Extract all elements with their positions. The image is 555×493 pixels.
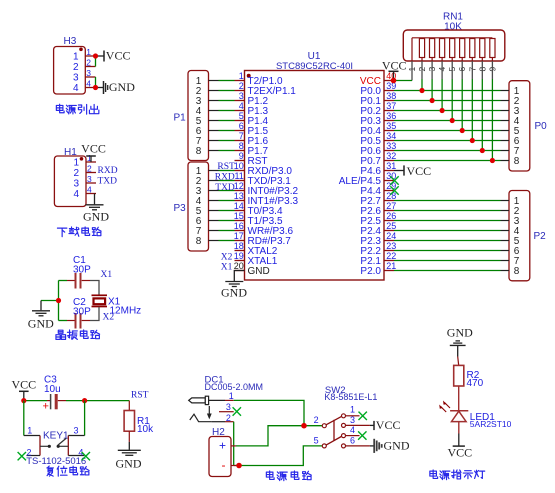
svg-text:12MHz: 12MHz: [110, 306, 142, 317]
wire P3 pin1 to U1: [219, 170, 235, 172]
svg-text:11: 11: [234, 171, 243, 181]
wire RN1 pin9 lead: [491, 61, 493, 79]
junction RN1 pin9: [490, 158, 495, 163]
wire P3 pin3 to U1: [219, 190, 235, 192]
ground GND (LED): [447, 326, 473, 346]
svg-text:P2: P2: [534, 231, 547, 242]
wire P1 pin4 to U1: [219, 110, 235, 112]
wire U1 pin33 to P0: [394, 150, 501, 152]
switch SW2 K8-5851E-L1: [314, 385, 378, 448]
svg-text:8: 8: [239, 141, 244, 151]
svg-text:2: 2: [73, 168, 79, 179]
svg-text:1: 1: [73, 158, 79, 169]
wire crystal bottom: [90, 307, 99, 321]
resistor R1 10k: [124, 401, 154, 442]
wire H1 pin4 to GND: [94, 194, 96, 205]
svg-text:2: 2: [239, 81, 244, 91]
wire SW2 pin2: [304, 425, 322, 427]
ground GND (U1): [221, 282, 247, 300]
wire bottom branch: [59, 320, 68, 322]
svg-text:37: 37: [386, 101, 396, 111]
wire U1 pin31 to VCC: [394, 170, 404, 172]
resistor R2 470: [454, 357, 484, 411]
wire P1 pin1 to U1: [219, 80, 235, 82]
svg-text:H3: H3: [64, 36, 77, 47]
capacitor C1 30P: [67, 255, 91, 289]
switch KEY1 TS-1102-5016: [24, 426, 86, 467]
resistor network RN1 10K: [403, 12, 505, 72]
svg-text:34: 34: [386, 131, 396, 141]
wire to GND: [96, 87, 104, 89]
svg-text:KEY1: KEY1: [43, 431, 69, 442]
wire RN1 pin5 lead: [451, 61, 453, 79]
svg-text:VCC: VCC: [382, 58, 407, 72]
svg-text:P3: P3: [174, 203, 187, 214]
wire VCC to RN1 pin1: [394, 80, 413, 82]
wire H3 pins 3-4: [95, 77, 97, 88]
wire U1 pin35 to P0: [394, 130, 501, 132]
svg-text:RST: RST: [217, 162, 235, 172]
svg-text:10k: 10k: [137, 424, 154, 435]
junction H2 minus node: [236, 463, 242, 469]
svg-text:GND: GND: [116, 456, 142, 470]
power VCC (reset): [11, 378, 36, 401]
svg-text:VCC: VCC: [448, 446, 473, 460]
svg-text:1: 1: [239, 71, 244, 81]
no-ERC U1 pin30: [390, 176, 398, 184]
connector P0: [501, 81, 548, 171]
connector P1: [174, 71, 219, 161]
wire DC1 pin2 down: [233, 422, 235, 466]
power VCC (U1 pin 40): [382, 58, 407, 80]
svg-text:X1: X1: [101, 270, 113, 280]
svg-text:3: 3: [239, 91, 244, 101]
junction SW2 pin2 node: [301, 423, 307, 429]
wire top branch: [59, 280, 68, 282]
svg-text:3: 3: [87, 174, 92, 184]
svg-text:15: 15: [234, 211, 244, 221]
svg-text:4: 4: [86, 78, 91, 88]
svg-text:14: 14: [234, 201, 244, 211]
svg-text:31: 31: [386, 161, 396, 171]
junction H3 pin4: [93, 85, 98, 90]
caption 电源指示灯: [430, 470, 485, 480]
svg-text:10u: 10u: [44, 384, 61, 395]
svg-text:8: 8: [514, 266, 520, 277]
ground GND (crystal): [28, 301, 54, 331]
caption 下载电路: [57, 227, 101, 237]
wire P1 pin3 to U1: [219, 100, 235, 102]
svg-text:+: +: [43, 401, 49, 413]
caption 电源引出: [56, 104, 98, 114]
svg-text:GND: GND: [83, 209, 109, 223]
svg-text:1: 1: [73, 52, 79, 63]
svg-text:7: 7: [239, 131, 244, 141]
svg-text:P1: P1: [174, 113, 187, 124]
wire P3 pin8 to U1: [219, 240, 235, 242]
wire to crystal top: [90, 281, 99, 296]
svg-text:VCC: VCC: [81, 142, 106, 156]
junction RN1 pin2: [419, 88, 424, 93]
svg-text:18: 18: [234, 241, 244, 251]
wire U1 pin22 to P2: [394, 260, 501, 262]
wire R1 to GND: [128, 442, 130, 450]
svg-text:22: 22: [386, 251, 396, 261]
connector P2: [501, 191, 547, 281]
wire crystal left vertical: [58, 281, 60, 321]
wire P3 pin5 to U1: [219, 210, 235, 212]
junction RN1 pin8: [480, 148, 485, 153]
svg-text:30P: 30P: [73, 306, 91, 317]
svg-text:K8-5851E-L1: K8-5851E-L1: [324, 392, 377, 402]
junction RN1 pin3: [430, 98, 435, 103]
svg-text:P0: P0: [535, 121, 548, 132]
power VCC (H3): [104, 49, 130, 63]
wire RN1 pin4 lead: [441, 61, 443, 79]
wire H3 pins 1-2: [95, 56, 97, 67]
svg-text:RXD: RXD: [98, 166, 118, 176]
svg-text:X1: X1: [221, 262, 233, 272]
svg-text:35: 35: [386, 121, 396, 131]
svg-text:23: 23: [386, 241, 396, 251]
svg-text:470: 470: [467, 378, 484, 389]
no-ERC DC1 pin3: [233, 407, 241, 415]
svg-text:VCC: VCC: [106, 49, 131, 63]
svg-text:26: 26: [386, 211, 396, 221]
svg-text:5: 5: [314, 435, 319, 445]
svg-text:13: 13: [234, 191, 244, 201]
svg-text:25: 25: [386, 221, 396, 231]
no-ERC KEY1 pin2: [18, 452, 26, 460]
svg-text:28: 28: [386, 191, 396, 201]
svg-text:16: 16: [234, 221, 244, 231]
wire U1 pin28 to P2: [394, 200, 501, 202]
wire P3 pin4 to U1: [219, 200, 235, 202]
svg-text:TS-1102-5016: TS-1102-5016: [26, 456, 86, 467]
svg-text:GND: GND: [384, 439, 410, 453]
wire node to KEY1 pin1: [23, 401, 25, 436]
connector H3: [54, 36, 96, 94]
svg-text:32: 32: [386, 151, 396, 161]
junction RN1 pin5: [450, 118, 455, 123]
wire U1 pin23 to P2: [394, 250, 501, 252]
connector H1: [54, 147, 96, 207]
wire U1 pin24 to P2: [394, 240, 501, 242]
svg-text:3: 3: [73, 179, 79, 190]
svg-text:VCC: VCC: [11, 378, 36, 392]
wire P1 pin8 to U1: [219, 150, 235, 152]
wire P3 pin2 to U1: [219, 180, 235, 182]
svg-text:GND: GND: [248, 266, 270, 277]
svg-text:1: 1: [350, 405, 355, 415]
wire RN1 pin2 lead: [421, 61, 423, 79]
svg-text:4: 4: [73, 83, 79, 94]
svg-text:P2.0: P2.0: [360, 266, 381, 277]
no-ERC U1 pin29: [390, 186, 398, 194]
wire RN1 pin3 lead: [431, 61, 433, 79]
svg-text:9: 9: [239, 151, 244, 161]
wire P1 pin2 to U1: [219, 90, 235, 92]
wire H2 plus to SW2: [236, 426, 304, 446]
wire U1 pin39 to P0: [394, 90, 501, 92]
svg-text:1: 1: [86, 47, 91, 57]
wire P1 pin5 to U1: [219, 120, 235, 122]
svg-text:21: 21: [386, 261, 396, 271]
svg-text:33: 33: [386, 141, 396, 151]
junction reset right: [82, 398, 87, 403]
svg-text:5: 5: [239, 111, 244, 121]
no-ERC KEY1 pin4: [82, 452, 90, 460]
power VCC (H1): [81, 142, 106, 163]
wire SW2 pin6 to GND: [370, 445, 374, 447]
svg-text:X2: X2: [221, 252, 233, 262]
svg-text:12: 12: [234, 181, 244, 191]
svg-text:3: 3: [86, 68, 91, 78]
wire U1 pin26 to P2: [394, 220, 501, 222]
LED LED1 5AR2ST10: [439, 401, 511, 430]
svg-text:30P: 30P: [73, 265, 91, 276]
svg-text:8: 8: [196, 236, 202, 247]
junction reset left: [21, 398, 26, 403]
battery connector H2: [209, 427, 236, 477]
crystal X1 12MHz: [92, 295, 142, 316]
junction H3 pin1: [93, 53, 98, 58]
connector P3: [174, 162, 219, 251]
svg-text:17: 17: [234, 231, 244, 241]
svg-text:2: 2: [73, 62, 79, 73]
svg-text:4: 4: [239, 101, 244, 111]
svg-text:5AR2ST10: 5AR2ST10: [470, 419, 512, 429]
svg-text:1: 1: [27, 426, 32, 436]
svg-text:GND: GND: [447, 326, 473, 340]
svg-text:4: 4: [350, 425, 355, 435]
svg-text:-: -: [222, 458, 226, 472]
svg-text:2: 2: [86, 57, 91, 67]
svg-text:2: 2: [314, 415, 319, 425]
svg-text:2: 2: [226, 413, 231, 423]
IC U1 STC89C52RC-40I: [234, 51, 396, 280]
capacitor C2 30P: [67, 297, 91, 329]
wire U1 pin20 to GND: [234, 271, 244, 282]
svg-text:3: 3: [73, 73, 79, 84]
svg-text:3: 3: [226, 402, 231, 412]
wire C3 to node: [66, 400, 129, 402]
svg-text:X2: X2: [103, 313, 115, 323]
svg-text:RST: RST: [131, 391, 149, 401]
svg-text:20: 20: [234, 261, 244, 271]
wire RN1 pin6 lead: [461, 61, 463, 79]
svg-text:4: 4: [87, 184, 92, 194]
wire U1 pin27 to P2: [394, 210, 501, 212]
svg-text:36: 36: [386, 111, 396, 121]
wire to VCC: [96, 55, 105, 57]
wire U1 pin25 to P2: [394, 230, 501, 232]
wire RN1 pin8 lead: [481, 61, 483, 79]
power GND (H3): [104, 80, 136, 94]
svg-text:19: 19: [234, 251, 244, 261]
svg-text:GND: GND: [109, 80, 135, 94]
wire RN1 pin7 lead: [471, 61, 473, 79]
svg-text:8: 8: [514, 156, 520, 167]
caption 电源电路: [266, 471, 311, 481]
svg-text:VCC: VCC: [407, 164, 432, 178]
junction crystal node: [56, 298, 61, 303]
power VCC (U1 pin31): [404, 164, 431, 178]
wire U1 pin37 to P0: [394, 110, 501, 112]
svg-text:24: 24: [386, 231, 396, 241]
wire U1 pin36 to P0: [394, 120, 501, 122]
svg-text:3: 3: [350, 415, 355, 425]
wire P3 pin6 to U1: [219, 220, 235, 222]
svg-text:3: 3: [74, 426, 79, 436]
svg-text:8: 8: [196, 146, 202, 157]
capacitor C3 10u: [43, 375, 67, 413]
svg-text:TXD: TXD: [98, 176, 118, 186]
wire U1 pin34 to P0: [394, 140, 501, 142]
svg-text:6: 6: [239, 121, 244, 131]
wire P3 pin7 to U1: [219, 230, 235, 232]
wire node to KEY1 pin3: [84, 401, 86, 436]
power jack DC1 DC005-2.0MM: [189, 375, 263, 423]
caption 晶振电路: [56, 330, 100, 339]
svg-text:RXD: RXD: [215, 173, 235, 183]
svg-text:4: 4: [73, 189, 79, 200]
no-ERC SW2 pin4: [358, 431, 366, 439]
wire RN1 pin1 lead: [411, 61, 413, 81]
wire VCC to C3: [24, 400, 47, 402]
wire LED to VCC: [458, 422, 460, 434]
power VCC (LED): [448, 446, 473, 460]
svg-text:10: 10: [234, 161, 244, 171]
svg-text:GND: GND: [221, 285, 247, 299]
svg-text:2: 2: [87, 163, 92, 173]
wire DC1 pin1 to SW2: [234, 400, 304, 425]
wire U1 pin21 to P2: [394, 270, 501, 272]
wire SW2 pin3 to VCC: [370, 424, 374, 426]
wire P1 pin6 to U1: [219, 130, 235, 132]
ground GND (H1): [83, 205, 109, 224]
svg-text:27: 27: [386, 201, 396, 211]
no-ERC SW2 pin1: [359, 412, 367, 420]
power GND (SW2): [374, 439, 410, 453]
wire GND to R2: [457, 345, 459, 356]
wire to GND (crystal): [41, 300, 59, 302]
junction RN1 pin4: [440, 108, 445, 113]
junction U1 pin40: [391, 78, 397, 84]
power VCC (SW2): [374, 418, 400, 432]
ground GND (R1): [116, 450, 142, 470]
caption 复位电路: [47, 466, 89, 476]
junction RN1 pin6: [460, 128, 465, 133]
svg-text:6: 6: [350, 435, 355, 445]
wire P1 pin7 to U1: [219, 140, 235, 142]
svg-text:TXD: TXD: [215, 183, 235, 193]
junction RN1 pin7: [470, 138, 475, 143]
svg-text:38: 38: [386, 91, 396, 101]
wire bottom to SW2 pin5: [234, 446, 323, 466]
svg-text:VCC: VCC: [376, 418, 401, 432]
wire U1 pin38 to P0: [394, 100, 501, 102]
svg-text:+: +: [219, 439, 226, 453]
svg-text:1: 1: [229, 391, 234, 401]
svg-text:GND: GND: [28, 316, 54, 330]
svg-text:10K: 10K: [444, 22, 462, 33]
wire U1 pin32 to P0: [394, 160, 501, 162]
